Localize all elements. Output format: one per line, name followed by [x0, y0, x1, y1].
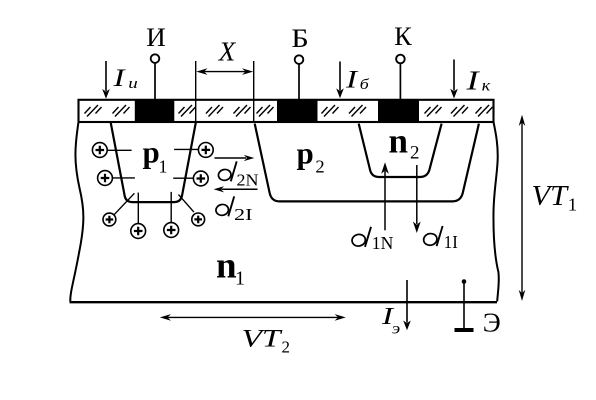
charge symbol 5 [164, 192, 179, 238]
alpha glyph 1I [423, 226, 443, 246]
svg-text:VT: VT [532, 180, 569, 212]
terminal И lead [151, 54, 160, 100]
svg-text:1I: 1I [444, 232, 458, 252]
chip bottom edge [70, 301, 498, 303]
svg-text:1N: 1N [372, 233, 394, 253]
alpha glyph 2I [215, 196, 234, 216]
charge symbol 4 [131, 193, 146, 239]
dimension X [196, 61, 254, 123]
svg-text:и: и [128, 76, 138, 92]
arrow alpha1I [413, 165, 421, 233]
svg-text:2N: 2N [237, 170, 259, 189]
svg-text:1: 1 [159, 156, 168, 176]
svg-text:p: p [297, 136, 314, 171]
svg-text:2I: 2I [234, 205, 253, 224]
svg-text:Э: Э [483, 308, 501, 338]
svg-text:X: X [218, 37, 237, 67]
charge symbol 3 [103, 193, 134, 226]
contact metal under И [135, 100, 175, 121]
svg-text:p: p [143, 134, 160, 169]
svg-text:n: n [216, 246, 237, 287]
arrow alpha2N [215, 155, 255, 161]
charge symbol 8 [174, 143, 213, 158]
terminal Б lead [295, 55, 304, 100]
dimension VT2 [160, 314, 346, 321]
region p1 well [111, 123, 196, 203]
arrow alpha1N [381, 162, 389, 230]
arrow current Iк [450, 60, 458, 99]
charge symbol 1 [92, 143, 131, 158]
arrow current Iи [102, 61, 110, 99]
svg-text:VT: VT [242, 325, 284, 352]
contact metal under К [378, 100, 419, 121]
svg-text:2: 2 [315, 157, 324, 177]
svg-text:1: 1 [235, 268, 245, 290]
svg-text:1: 1 [568, 195, 578, 215]
svg-text:n: n [389, 122, 408, 161]
region n2 well [359, 124, 442, 177]
svg-text:И: И [146, 23, 166, 52]
svg-text:э: э [392, 321, 401, 338]
chip right edge [493, 122, 498, 302]
alpha glyph 2N [217, 161, 236, 181]
alpha glyph 1N [351, 227, 371, 247]
arrow alpha2I [214, 186, 258, 192]
svg-text:2: 2 [410, 142, 420, 163]
svg-text:Б: Б [291, 24, 309, 53]
terminal К lead [396, 55, 405, 101]
terminal Э lead [455, 279, 474, 330]
svg-text:2: 2 [282, 337, 291, 356]
charge symbol 7 [173, 171, 208, 186]
oxide layer strip [79, 100, 494, 122]
contact metal under Б [277, 100, 318, 121]
svg-text:к: к [482, 78, 491, 95]
oxide hatching [85, 105, 493, 117]
dimension VT1 [519, 115, 526, 301]
charge symbol 6 [179, 195, 205, 226]
svg-text:К: К [394, 22, 412, 51]
arrow current Iб [336, 62, 344, 99]
arrow current Iэ [403, 280, 411, 330]
charge symbol 2 [98, 171, 135, 186]
region p2 well [255, 124, 479, 202]
svg-text:б: б [360, 77, 370, 93]
chip left edge [70, 122, 83, 302]
